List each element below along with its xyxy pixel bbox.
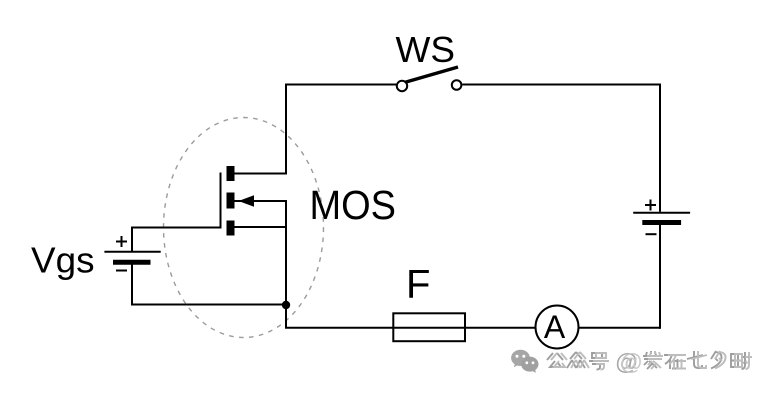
svg-text:MOS: MOS — [310, 182, 397, 228]
svg-text:WS: WS — [396, 29, 456, 70]
svg-text:@: @ — [620, 349, 643, 375]
svg-text:A: A — [544, 309, 566, 345]
svg-text:Vgs: Vgs — [31, 240, 95, 281]
svg-text:F: F — [406, 263, 430, 307]
